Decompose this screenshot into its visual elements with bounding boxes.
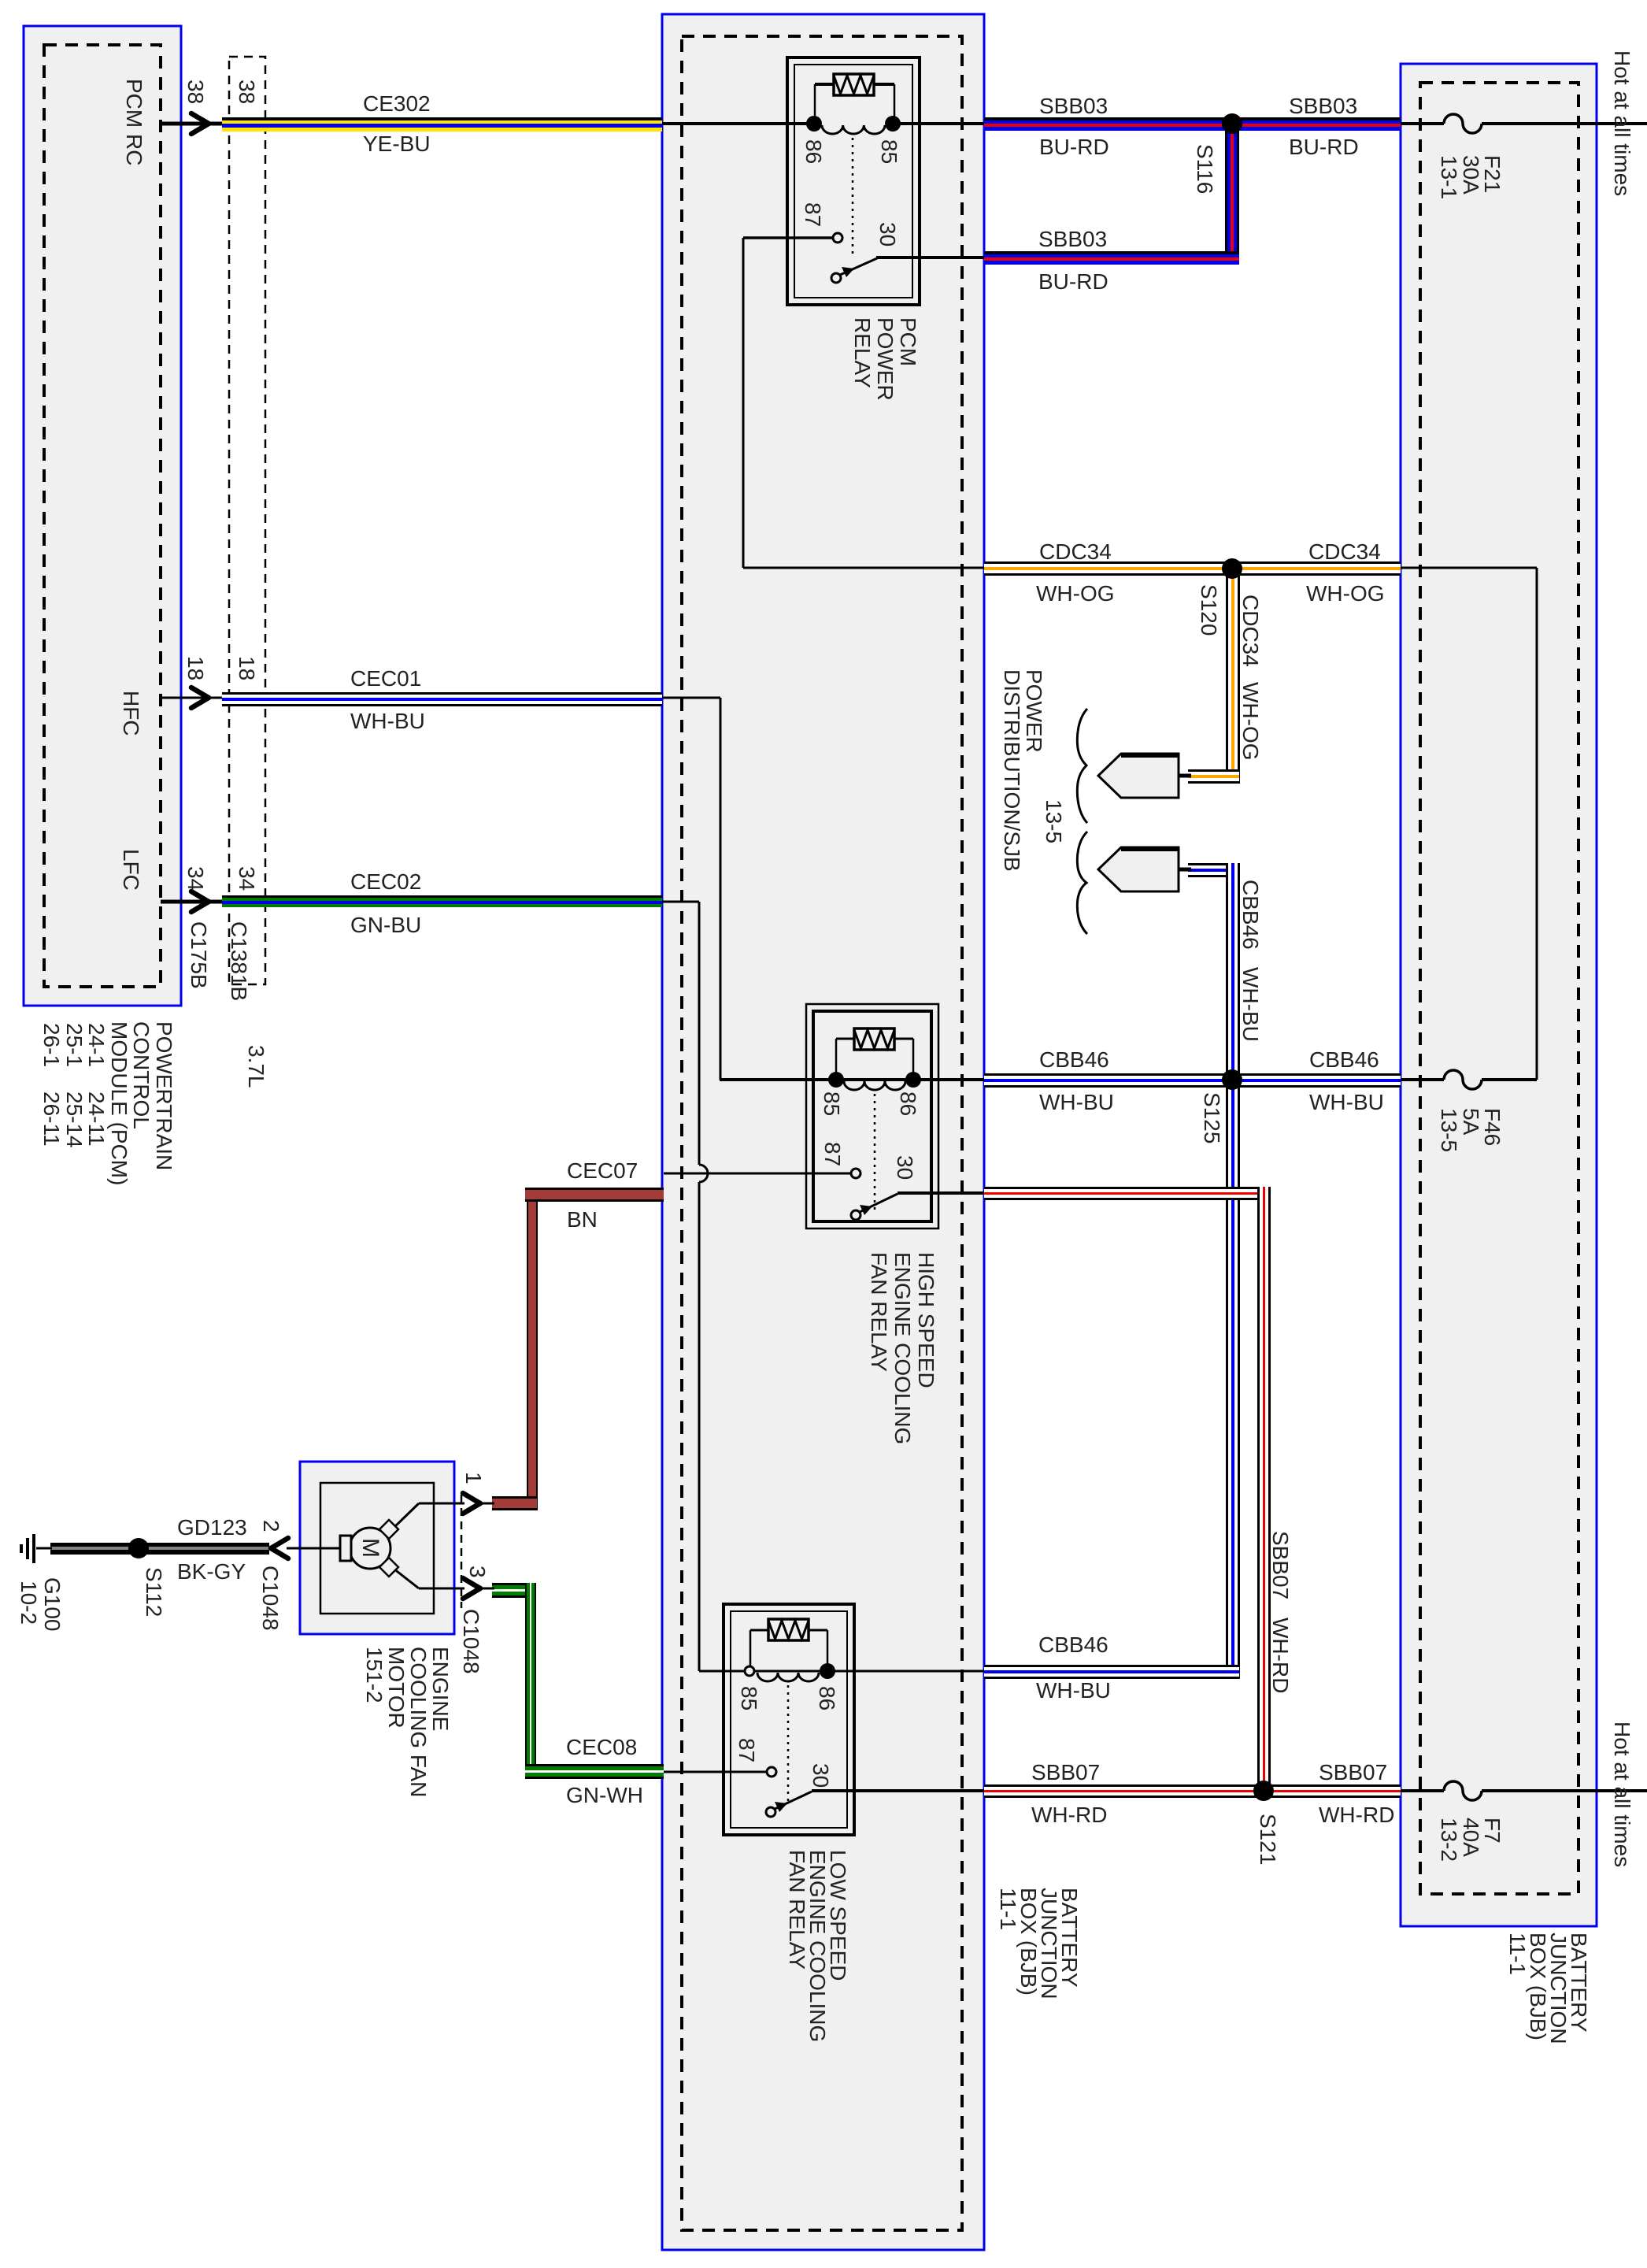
terminal dot 86 xyxy=(806,116,822,132)
svg-text:GN-WH: GN-WH xyxy=(566,1783,643,1807)
svg-text:25-1: 25-1 xyxy=(62,1023,87,1067)
wire CEC02 inside middle box xyxy=(662,901,699,903)
motor M symbol xyxy=(350,1528,390,1569)
svg-text:WH-OG: WH-OG xyxy=(1306,581,1385,606)
svg-text:YE-BU: YE-BU xyxy=(363,132,431,156)
wire CEC02 GN-BU pin stub xyxy=(161,900,224,904)
svg-text:1: 1 xyxy=(461,1472,486,1484)
low speed relay pin 30 pivot xyxy=(766,1807,775,1817)
terminal ring 85 xyxy=(745,1666,754,1676)
low speed relay actuator dotted line xyxy=(787,1685,790,1805)
battery junction box (BJB) xyxy=(1401,64,1597,1926)
middle box inner dashed border xyxy=(682,36,962,2230)
wire low speed relay coil line xyxy=(699,1670,745,1673)
svg-text:85: 85 xyxy=(820,1091,844,1116)
engine cooling fan motor box xyxy=(300,1462,454,1634)
svg-text:85: 85 xyxy=(737,1686,761,1710)
terminal dot 85 xyxy=(885,116,901,132)
svg-text:SBB07: SBB07 xyxy=(1268,1531,1293,1599)
low speed relay coil xyxy=(757,1673,819,1681)
svg-text:C1048: C1048 xyxy=(459,1609,483,1674)
PCM relay switch blade xyxy=(840,258,877,275)
svg-text:PCM: PCM xyxy=(896,317,920,366)
wire SBB07 WH-RD vertical xyxy=(1257,1187,1260,1791)
wire GD123 BK-GY ground wire xyxy=(50,1543,269,1547)
wire CBB46 inside BJB with fuse F46 xyxy=(1401,1078,1444,1081)
svg-text:26-11: 26-11 xyxy=(39,1091,64,1147)
wire CDC34 inside middle box xyxy=(743,567,984,569)
svg-text:LFC: LFC xyxy=(119,849,143,891)
svg-text:Hot at all times: Hot at all times xyxy=(1610,1721,1634,1867)
PCM relay actuator dotted line xyxy=(852,138,854,254)
svg-text:CBB46: CBB46 xyxy=(1038,1632,1108,1657)
svg-text:87: 87 xyxy=(820,1142,845,1166)
wire CEC08 GN-WH upper arm from motor pin 3 xyxy=(492,1583,536,1585)
connector C1048 dashed line xyxy=(461,1495,463,1608)
svg-text:26-1: 26-1 xyxy=(39,1023,64,1067)
wire SBB03 inside BJB with fuse F21 xyxy=(1401,122,1444,125)
svg-text:86: 86 xyxy=(896,1091,920,1116)
wire motor pin 2 lead xyxy=(287,1547,342,1550)
svg-text:30: 30 xyxy=(875,222,900,246)
svg-text:30: 30 xyxy=(893,1155,917,1180)
pin arrow 18 xyxy=(191,687,209,708)
svg-text:87: 87 xyxy=(801,202,825,227)
PCM power relay resistor xyxy=(815,83,834,86)
svg-text:CEC02: CEC02 xyxy=(350,869,421,894)
wire from PCM relay pin 87 xyxy=(743,236,835,239)
SJB connector arrow 2 xyxy=(1098,847,1179,891)
motor brush rectangle xyxy=(340,1536,351,1561)
svg-text:34: 34 xyxy=(235,866,259,891)
svg-text:25-14: 25-14 xyxy=(62,1091,87,1148)
svg-text:CEC08: CEC08 xyxy=(566,1735,637,1759)
svg-text:C175B: C175B xyxy=(187,921,211,989)
wire vertical pin87 to CDC34 xyxy=(742,238,745,568)
wire CBB46 WH-BU from SJB connector 2 xyxy=(1188,863,1239,865)
svg-text:3: 3 xyxy=(465,1566,490,1578)
svg-text:WH-RD: WH-RD xyxy=(1319,1803,1394,1827)
tail line SJB connector 2 xyxy=(1179,868,1191,872)
splice S121 xyxy=(1253,1781,1274,1801)
svg-text:SBB07: SBB07 xyxy=(1031,1760,1100,1784)
svg-text:FAN RELAY: FAN RELAY xyxy=(867,1252,891,1372)
svg-text:40A: 40A xyxy=(1459,1818,1483,1857)
low speed relay pin 87 contact xyxy=(767,1767,776,1777)
svg-text:WH-BU: WH-BU xyxy=(350,709,425,733)
svg-text:18: 18 xyxy=(235,656,259,680)
wire motor pin 1 lead xyxy=(394,1503,419,1528)
wire motor pin 3 lead xyxy=(394,1569,419,1588)
svg-text:SBB03: SBB03 xyxy=(1038,227,1107,251)
high speed relay coil xyxy=(844,1081,905,1090)
motor terminal tab 2 xyxy=(379,1558,398,1577)
svg-text:RELAY: RELAY xyxy=(850,317,875,388)
connector C1381B dashed box xyxy=(229,57,265,984)
svg-text:CBB46: CBB46 xyxy=(1039,1047,1109,1072)
wire CE302 YE-BU xyxy=(222,117,662,120)
svg-text:S112: S112 xyxy=(142,1567,166,1617)
svg-text:WH-BU: WH-BU xyxy=(1309,1090,1384,1114)
svg-text:11-1: 11-1 xyxy=(1505,1933,1530,1975)
svg-text:WH-OG: WH-OG xyxy=(1238,682,1263,761)
splice S112 xyxy=(128,1538,149,1558)
low speed relay resistor xyxy=(750,1629,768,1632)
svg-text:13-1: 13-1 xyxy=(1437,155,1461,199)
wire CEC01 WH-BU xyxy=(222,692,662,695)
svg-text:M: M xyxy=(357,1538,383,1558)
svg-text:13-2: 13-2 xyxy=(1437,1818,1461,1862)
svg-text:G100: G100 xyxy=(40,1577,65,1632)
wire SBB03 BU-RD lower from relay pin 30 xyxy=(984,251,1239,254)
svg-text:C1048: C1048 xyxy=(258,1566,283,1631)
wire SBB07 WH-RD lower horizontal xyxy=(984,1784,1401,1787)
motor inner rectangle xyxy=(320,1483,434,1614)
svg-text:3.7L: 3.7L xyxy=(244,1045,268,1088)
svg-text:GN-BU: GN-BU xyxy=(350,913,421,937)
wire CEC08 GN-WH lower arm to middle box xyxy=(525,1764,664,1766)
splice S120 xyxy=(1222,558,1242,579)
fuse F7 40A xyxy=(1444,1781,1482,1800)
high speed relay resistor xyxy=(836,1038,854,1040)
wire CEC07 to high speed relay pin 87 xyxy=(664,1173,853,1175)
svg-text:WH-RD: WH-RD xyxy=(1031,1803,1107,1827)
wire SBB03 BU-RD upper xyxy=(984,117,1401,120)
splice S116 xyxy=(1222,113,1242,134)
wire CBB46 WH-BU vertical through S125 xyxy=(1226,863,1228,1679)
svg-text:WH-BU: WH-BU xyxy=(1039,1090,1114,1114)
wire CE302 inside middle box xyxy=(662,122,816,125)
wire CEC08 GN-WH vertical xyxy=(525,1583,527,1779)
svg-text:SBB07: SBB07 xyxy=(1319,1760,1387,1784)
svg-text:S121: S121 xyxy=(1256,1814,1280,1865)
brace lower xyxy=(1077,832,1087,934)
svg-text:10-2: 10-2 xyxy=(17,1581,41,1625)
svg-text:11-1: 11-1 xyxy=(996,1888,1020,1930)
svg-text:86: 86 xyxy=(801,139,826,164)
brace upper xyxy=(1077,709,1087,823)
svg-text:CE302: CE302 xyxy=(363,91,431,116)
wire hop of CEC02 over CEC07 xyxy=(699,1165,708,1182)
wire CDC34 vertical inside BJB to fuse F46 xyxy=(1536,568,1538,1080)
wire SBB03 vertical drop at S116 xyxy=(1225,128,1227,265)
wire SBB07 from high speed relay pin 30 xyxy=(898,1191,984,1195)
terminal dot 86 xyxy=(820,1663,835,1679)
svg-text:PCM RC: PCM RC xyxy=(122,79,146,165)
svg-text:87: 87 xyxy=(735,1738,759,1762)
svg-text:BU-RD: BU-RD xyxy=(1039,135,1109,159)
wire pin30 PCM relay to box edge xyxy=(876,256,984,259)
terminal dot 86 xyxy=(905,1072,921,1088)
high speed relay pin 30 pivot xyxy=(851,1210,861,1220)
svg-text:85: 85 xyxy=(877,139,901,164)
svg-text:34: 34 xyxy=(183,866,208,891)
svg-text:DISTRIBUTION/SJB: DISTRIBUTION/SJB xyxy=(1000,669,1024,872)
splice S125 xyxy=(1222,1069,1242,1090)
fuse F21 30A xyxy=(1444,114,1482,133)
wire CDC34 WH-OG vertical below S120 xyxy=(1226,569,1228,784)
pin arrow 2 of C1048 xyxy=(271,1538,288,1558)
middle component box (relay carrier) xyxy=(662,14,984,2250)
svg-text:38: 38 xyxy=(183,80,208,104)
wire from low speed relay pin 30 xyxy=(812,1789,984,1792)
wire CDC34 jog to SJB connector xyxy=(1188,769,1239,772)
svg-text:MOTOR: MOTOR xyxy=(384,1647,409,1729)
svg-text:30A: 30A xyxy=(1459,155,1483,195)
fuse F46 5A xyxy=(1444,1070,1482,1089)
motor terminal tab 1 xyxy=(379,1520,398,1539)
wire CBB46 WH-BU upper horizontal xyxy=(984,1073,1401,1076)
svg-text:POWER: POWER xyxy=(873,317,898,401)
PCM power relay box xyxy=(787,57,920,305)
terminal dot 85 xyxy=(828,1072,844,1088)
high speed relay pin 87 contact xyxy=(851,1169,861,1178)
wire CEC08 to low speed relay pin 87 xyxy=(664,1771,768,1773)
pin arrow 3 of C1048 xyxy=(463,1578,480,1599)
wire SBB07 WH-RD upper horizontal xyxy=(984,1187,1271,1189)
svg-text:SBB03: SBB03 xyxy=(1039,94,1108,118)
wire CEC07 BN vertical xyxy=(527,1188,528,1510)
svg-text:BK-GY: BK-GY xyxy=(177,1559,246,1584)
svg-text:POWER: POWER xyxy=(1022,669,1046,753)
wire CBB46 WH-BU lower horizontal to low speed relay coil xyxy=(984,1665,1239,1667)
svg-text:ENGINE COOLING: ENGINE COOLING xyxy=(890,1252,915,1444)
pin arrow 34 xyxy=(191,891,209,912)
svg-text:WH-BU: WH-BU xyxy=(1036,1678,1111,1703)
wire CEC01 vertical to high speed relay xyxy=(720,698,722,1080)
svg-text:86: 86 xyxy=(815,1686,839,1710)
svg-text:FAN RELAY: FAN RELAY xyxy=(785,1850,809,1970)
svg-text:24-1: 24-1 xyxy=(84,1023,109,1067)
svg-text:5A: 5A xyxy=(1459,1108,1483,1136)
svg-text:COOLING FAN: COOLING FAN xyxy=(406,1647,431,1797)
svg-text:13-5: 13-5 xyxy=(1437,1108,1461,1152)
tail line SJB connector 1 xyxy=(1179,774,1191,778)
svg-text:CDC34: CDC34 xyxy=(1039,539,1112,564)
svg-text:GD123: GD123 xyxy=(177,1515,247,1540)
high speed relay actuator dotted line xyxy=(874,1094,876,1212)
svg-text:BU-RD: BU-RD xyxy=(1038,269,1108,294)
svg-text:CBB46: CBB46 xyxy=(1238,880,1263,950)
low speed relay switch blade xyxy=(773,1792,812,1810)
high speed engine cooling fan relay box xyxy=(806,1004,938,1228)
svg-text:CONTROL: CONTROL xyxy=(129,1021,154,1129)
svg-text:CBB46: CBB46 xyxy=(1309,1047,1379,1072)
PCM relay pin 87 contact xyxy=(833,233,842,243)
svg-text:BN: BN xyxy=(567,1207,598,1232)
svg-text:38: 38 xyxy=(235,80,259,104)
svg-text:ENGINE: ENGINE xyxy=(428,1647,453,1731)
svg-text:POWERTRAIN: POWERTRAIN xyxy=(152,1021,176,1170)
PCM inner dashed border xyxy=(44,45,161,987)
pin arrow 1 of C1048 xyxy=(463,1493,480,1514)
svg-text:CDC34: CDC34 xyxy=(1238,595,1263,667)
svg-text:WH-OG: WH-OG xyxy=(1036,581,1115,606)
wire CEC02 vertical to low speed relay xyxy=(698,902,701,1165)
svg-text:2: 2 xyxy=(259,1520,283,1532)
svg-text:18: 18 xyxy=(183,656,208,680)
wire CDC34 WH-OG xyxy=(984,561,1401,564)
svg-text:CEC07: CEC07 xyxy=(567,1158,638,1183)
wire CBB46 relay coil line xyxy=(720,1078,984,1081)
PCM module box (PCM) xyxy=(24,26,181,1006)
svg-text:S116: S116 xyxy=(1193,144,1217,194)
BJB inner dashed border xyxy=(1420,83,1579,1894)
wire CE302 YE-BU pin stub xyxy=(161,122,224,126)
svg-text:S125: S125 xyxy=(1200,1092,1224,1143)
svg-text:24-11: 24-11 xyxy=(84,1091,109,1147)
svg-text:Hot at all times: Hot at all times xyxy=(1610,50,1634,196)
svg-text:HFC: HFC xyxy=(119,691,143,736)
svg-text:WH-RD: WH-RD xyxy=(1268,1618,1293,1693)
svg-text:WH-BU: WH-BU xyxy=(1238,967,1263,1042)
svg-text:S120: S120 xyxy=(1197,584,1221,636)
wire CEC02 GN-BU xyxy=(222,895,662,898)
svg-text:MODULE (PCM): MODULE (PCM) xyxy=(107,1021,131,1185)
svg-text:13-5: 13-5 xyxy=(1042,799,1066,843)
PCM power relay coil xyxy=(822,125,885,134)
svg-text:C1381B: C1381B xyxy=(227,921,251,1001)
wire CEC01 WH-BU pin stub xyxy=(161,697,224,699)
wire SBB07 inside BJB with fuse F7 xyxy=(1401,1789,1444,1792)
svg-text:CDC34: CDC34 xyxy=(1308,539,1381,564)
ground G100 symbol xyxy=(36,1547,52,1550)
PCM relay pin 30 pivot xyxy=(831,273,841,283)
svg-text:30: 30 xyxy=(809,1763,833,1788)
SJB connector arrow 1 xyxy=(1098,754,1179,798)
svg-text:BU-RD: BU-RD xyxy=(1289,135,1359,159)
wire CEC07 BN lower arm to motor pin 1 xyxy=(492,1496,537,1499)
svg-text:SBB03: SBB03 xyxy=(1289,94,1357,118)
svg-text:151-2: 151-2 xyxy=(362,1647,387,1703)
low speed engine cooling fan relay box xyxy=(724,1604,854,1835)
svg-text:HIGH SPEED: HIGH SPEED xyxy=(914,1252,938,1388)
pin arrow 38 xyxy=(191,113,209,134)
svg-text:CEC01: CEC01 xyxy=(350,666,421,691)
high speed relay switch blade xyxy=(858,1194,898,1213)
wire CEC07 BN upper arm to middle box xyxy=(525,1188,664,1190)
wire CDC34 inside BJB xyxy=(1401,567,1537,569)
wire CEC01 inside middle box xyxy=(662,697,720,699)
